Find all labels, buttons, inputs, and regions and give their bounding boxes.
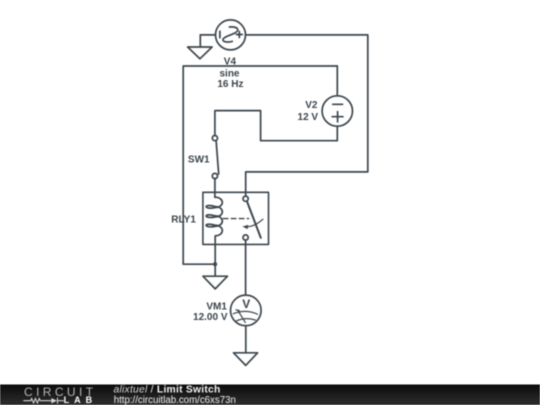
relay RLY1 xyxy=(203,192,269,244)
wire V2 plus to SW1 top xyxy=(215,111,337,141)
ground G3 (below voltmeter) xyxy=(234,353,258,366)
svg-text:RLY1: RLY1 xyxy=(171,215,196,226)
svg-text:http://circuitlab.com/c6xs73n: http://circuitlab.com/c6xs73n xyxy=(114,395,236,405)
V2 body circle xyxy=(322,96,352,126)
VM1 body circle xyxy=(231,295,262,326)
V4 minus sign (left pin side) xyxy=(219,31,221,38)
SW1 bottom terminal xyxy=(212,173,217,178)
V4 plus sign (right pin side) xyxy=(236,32,242,38)
VM1 meter needle xyxy=(238,310,246,322)
wire coil bottom to junction to ground G2 xyxy=(214,239,216,276)
voltmeter VM1 xyxy=(231,295,262,326)
svg-text:16 Hz: 16 Hz xyxy=(217,79,243,90)
wire SW1 bottom to relay coil xyxy=(214,179,216,198)
voltage source V2 (DC) xyxy=(322,96,352,126)
ground G2 (below relay coil) xyxy=(203,276,228,289)
RLY1 contact blade xyxy=(247,201,261,238)
SW1 blade xyxy=(216,141,219,175)
VM1 meter scale arc xyxy=(233,311,257,314)
wire V4 plus to relay common pin xyxy=(246,35,368,196)
RLY1 contact NO terminal xyxy=(243,235,248,240)
svg-text:12 V: 12 V xyxy=(298,112,319,123)
svg-text:alixtuel / Limit Switch: alixtuel / Limit Switch xyxy=(114,384,221,395)
svg-text:sine: sine xyxy=(219,68,239,79)
svg-text:LAB: LAB xyxy=(64,395,98,405)
SW1 top terminal xyxy=(212,136,217,141)
RLY1 coil xyxy=(206,197,222,238)
wire voltmeter to ground G3 xyxy=(245,326,247,353)
voltage source V4 (sine) xyxy=(216,20,246,50)
wire V2 top stem xyxy=(336,66,338,96)
footer bar xyxy=(0,385,540,405)
switch SW1 xyxy=(212,136,218,179)
wire relay contact to voltmeter xyxy=(245,240,247,295)
svg-text:12.00 V: 12.00 V xyxy=(193,312,228,323)
V4 sine waveform glyph xyxy=(223,27,238,42)
wire ground rail: horizontal under V4, left rail down, to junction xyxy=(183,66,337,264)
junction dot xyxy=(213,262,217,266)
VM1 meter lower arc xyxy=(237,319,256,321)
svg-text:V: V xyxy=(242,297,250,311)
RLY1 body box xyxy=(203,192,269,244)
RLY1 coupling dashed link xyxy=(223,218,248,220)
footer logo resistor-diode symbol xyxy=(23,398,63,404)
ground G1 (top left) xyxy=(188,47,213,59)
RLY1 contact common terminal xyxy=(243,196,248,201)
V4 body circle xyxy=(216,20,246,50)
V2 minus sign (top pin side) xyxy=(333,103,343,105)
svg-text:SW1: SW1 xyxy=(188,154,210,165)
wire V4 minus to ground xyxy=(200,35,215,47)
RLY1 actuation arrow xyxy=(245,219,263,227)
svg-text:V2: V2 xyxy=(305,100,318,111)
svg-text:V4: V4 xyxy=(224,56,237,67)
svg-text:VM1: VM1 xyxy=(206,301,227,312)
V2 plus sign (bottom pin side) xyxy=(332,112,343,122)
